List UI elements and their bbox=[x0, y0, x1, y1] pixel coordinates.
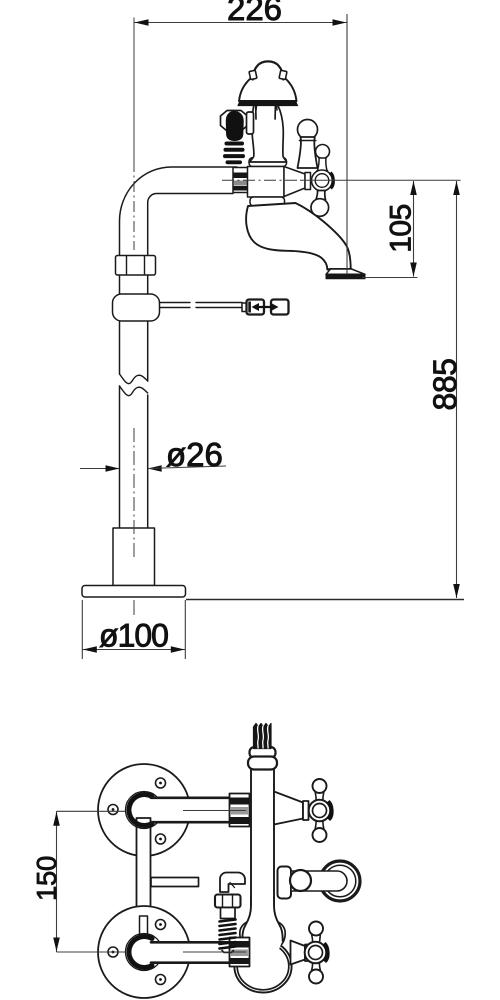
handshower elbow front bbox=[220, 873, 245, 893]
pipe-to-body hex fitting bbox=[233, 168, 249, 193]
dim 226 line bbox=[134, 22, 347, 24]
union tube upper part bbox=[137, 818, 151, 916]
svg-text:ø26: ø26 bbox=[166, 436, 223, 473]
inlet ring bottom bbox=[126, 934, 163, 971]
rear cross handle knob bbox=[298, 120, 318, 140]
svg-text:ø100: ø100 bbox=[99, 618, 168, 654]
dim d26 left arrow bbox=[80, 468, 119, 470]
wire: standpipe lower left edge bbox=[119, 386, 121, 528]
lever arm bbox=[291, 871, 347, 891]
wire: standpipe inner bend bbox=[148, 193, 233, 381]
axis line y180 bbox=[222, 179, 300, 181]
front handle upper ball bbox=[316, 145, 330, 159]
inlet ring top bbox=[126, 792, 163, 829]
body tube bbox=[251, 766, 274, 918]
rod slider block B bbox=[271, 300, 289, 315]
rod slider block A bbox=[242, 303, 247, 312]
top supply pipe bbox=[152, 798, 246, 822]
ticks under rim bbox=[255, 106, 258, 110]
grip side lug left bbox=[249, 70, 257, 79]
front handle right arm (dark) bbox=[329, 172, 334, 189]
hose elbow hex bbox=[221, 111, 248, 132]
valve body cap bbox=[249, 158, 287, 167]
body skirt to bell bbox=[242, 898, 282, 952]
bell inner neck stubs bbox=[255, 106, 257, 119]
break symbol upper wave bbox=[120, 374, 148, 384]
side rod front view bbox=[151, 878, 199, 887]
svg-text:226: 226 bbox=[227, 0, 282, 27]
slider double arrow bbox=[248, 302, 278, 313]
spout outlet flare bbox=[326, 269, 365, 274]
hex nut on standpipe bbox=[116, 256, 156, 276]
wire: standpipe lower right edge bbox=[147, 395, 149, 528]
union tube lower narrow part bbox=[140, 916, 148, 938]
extension line spout outlet bbox=[362, 277, 418, 279]
handshower hex nut front bbox=[215, 895, 241, 908]
svg-text:105: 105 bbox=[385, 204, 418, 253]
dim d26 leader bbox=[148, 466, 226, 469]
valve body barrel bbox=[248, 167, 285, 198]
wire: standpipe L-bend outline bbox=[119, 167, 237, 374]
svg-text:885: 885 bbox=[427, 359, 463, 411]
front handle hub bbox=[312, 170, 333, 191]
wall flange top bbox=[98, 764, 190, 856]
top valve cone bbox=[274, 792, 303, 825]
ground line bbox=[186, 599, 464, 601]
dim 150 extension lines bbox=[57, 810, 126, 812]
flange screws bottom bbox=[156, 920, 166, 930]
svg-text:150: 150 bbox=[31, 856, 62, 901]
front handle lower stem + ball bbox=[316, 191, 326, 200]
handle cone bbox=[284, 167, 305, 197]
wall flange bottom bbox=[98, 906, 190, 998]
extension line right of 226 bbox=[346, 14, 348, 274]
bottom pipe hex nut bbox=[230, 938, 250, 967]
shower hose (ribbed) bbox=[254, 724, 272, 749]
dim d100 extension lines bbox=[81, 600, 83, 659]
skirt side hooks bbox=[240, 921, 250, 948]
elbow bracket to body bbox=[247, 112, 254, 134]
diverter lever bracket bbox=[278, 867, 292, 899]
dim d100 line bbox=[82, 649, 185, 651]
base flange bbox=[82, 586, 186, 598]
spout outlet dark rim bbox=[326, 274, 365, 278]
shower-holder rod bbox=[160, 303, 243, 308]
hose ribs bbox=[223, 142, 245, 165]
dim 150 line bbox=[56, 811, 58, 952]
base cylinder bbox=[113, 528, 155, 586]
bottom handle cross bbox=[312, 935, 321, 943]
top handle cross bbox=[315, 793, 324, 801]
spout body bbox=[246, 203, 351, 270]
bottom supply pipe bbox=[152, 943, 246, 963]
valve body lower band bbox=[250, 197, 285, 206]
handshower grip arc above bell bbox=[253, 61, 283, 79]
cradle bell dome bbox=[239, 72, 297, 101]
collar on standpipe bbox=[113, 294, 160, 321]
centerline standpipe bbox=[133, 18, 135, 162]
lever ring bbox=[320, 861, 360, 901]
centerline flange bottom bbox=[183, 951, 246, 953]
bottom valve cone bbox=[291, 941, 306, 965]
hose elbow dark body bbox=[227, 112, 244, 140]
grip side lug right bbox=[279, 70, 287, 79]
handshower neck in cradle bbox=[250, 105, 287, 162]
top pipe hex nut bbox=[230, 794, 250, 827]
hose coupling rings bbox=[250, 747, 276, 758]
flange screws top bbox=[156, 778, 166, 788]
dim 885 line bbox=[456, 181, 458, 598]
bell front (double ellipse) bbox=[234, 940, 291, 993]
bell dark rim bbox=[238, 101, 298, 106]
threaded nipple ribs bbox=[220, 920, 236, 949]
lever knob bbox=[290, 870, 311, 891]
nipple shank bbox=[221, 908, 236, 919]
dim 105 line bbox=[413, 181, 415, 277]
break symbol lower wave bbox=[120, 386, 148, 396]
centerline flange top bbox=[183, 810, 246, 812]
